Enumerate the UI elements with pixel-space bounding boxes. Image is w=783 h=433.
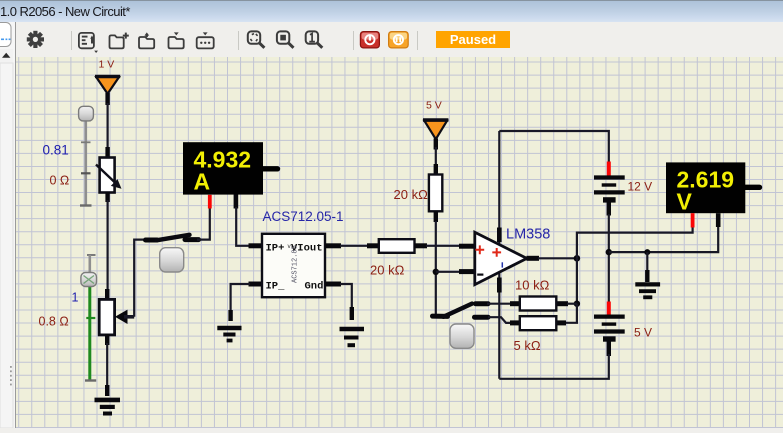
icon open-folder (up arrow) <box>139 32 154 48</box>
wire B1 minus down <box>608 214 610 303</box>
switch SW2 lever <box>157 235 190 241</box>
icon zoom-area <box>277 31 294 47</box>
svg-text:IP_: IP_ <box>266 281 286 293</box>
icon export (box with dots) <box>197 32 214 48</box>
button BTN2 <box>450 324 474 348</box>
switch SW1 throw pin upper <box>476 301 489 306</box>
wire ammeter to IP+ <box>236 207 250 246</box>
ammeter black pin <box>234 195 239 209</box>
wire node D to R2 right <box>564 304 577 323</box>
wire node F to ground <box>646 252 648 274</box>
op-amp U2 power pin bottom <box>498 272 500 379</box>
icon zoom-extents <box>248 31 265 47</box>
IC U1 pin IP_ <box>249 282 264 287</box>
wire IP_ to ground <box>231 284 250 318</box>
svg-text:5 V: 5 V <box>426 100 442 112</box>
svg-text:0.81: 0.81 <box>43 143 69 158</box>
slider1 knob <box>79 106 94 121</box>
ground GND2 <box>217 328 241 341</box>
slider2 knob <box>81 273 97 287</box>
slider1 track <box>80 112 92 206</box>
node E junction dot <box>606 249 612 255</box>
ground GND4 <box>635 284 660 297</box>
wire V2 to RV2 <box>106 103 108 150</box>
battery B2 5V <box>594 317 625 356</box>
battery B1 red stub <box>607 162 611 178</box>
ground GND3 <box>340 329 365 345</box>
resistor R2 5k pins <box>510 320 521 325</box>
switch SW1 lever <box>444 304 473 317</box>
svg-text:1 V: 1 V <box>99 59 115 71</box>
voltage source V2 (1V) <box>95 76 120 105</box>
toolbar <box>0 22 783 57</box>
resistor R1 10k pins <box>510 301 521 306</box>
ammeter red pin <box>208 195 212 209</box>
resistor R1 10k <box>520 297 557 311</box>
wire VIout to R3 <box>340 245 370 247</box>
svg-text:5 V: 5 V <box>634 326 652 340</box>
overflow box with dots <box>0 23 11 47</box>
node C junction dot <box>574 255 581 262</box>
node D junction dot <box>574 301 580 307</box>
slider2 track <box>85 255 96 381</box>
wire SW2 to ammeter <box>197 206 210 240</box>
paused badge <box>436 31 510 48</box>
resistor R3 20k <box>379 239 415 253</box>
op-amp U2 power pin top <box>498 131 500 245</box>
svg-text:10 kΩ: 10 kΩ <box>515 278 550 293</box>
ground GND1 <box>95 400 121 414</box>
IC U1 pin Gnd <box>325 282 341 287</box>
battery B2 red stub <box>607 302 611 317</box>
wire V3 to R4 <box>435 147 437 168</box>
rheostat RV2 pin top <box>105 147 109 158</box>
rheostat RV2 pin bottom <box>105 192 109 202</box>
voltmeter black pin <box>716 213 721 227</box>
wire R1 right to node D <box>567 303 577 305</box>
switch SW1 pole pin <box>433 314 448 319</box>
svg-text:20 kΩ: 20 kΩ <box>370 263 405 278</box>
wire opamp V+ feedback to battery B1 <box>499 131 609 164</box>
voltage source V3 (5V) <box>423 120 448 150</box>
wire output to node C <box>538 257 577 259</box>
wire lower throw to R2 <box>488 317 513 323</box>
voltmeter display 2.619 V <box>666 162 760 214</box>
button BTN1 <box>160 248 184 272</box>
svg-text:A: A <box>194 169 211 195</box>
svg-text:1: 1 <box>72 291 79 305</box>
svg-text:12 V: 12 V <box>628 180 653 194</box>
scrollbar thumb grip dots <box>10 366 12 385</box>
IC U1 pin VIout <box>325 243 341 248</box>
wire RV1 to ground <box>106 343 108 390</box>
stop button <box>360 32 379 48</box>
resistor R4 pin bottom <box>434 211 438 222</box>
IC U1 pin IP+ <box>249 243 264 248</box>
icon save-folder (down triangle) <box>169 32 184 48</box>
svg-text:Gnd: Gnd <box>305 281 324 293</box>
wire node B to opamp minus <box>436 271 462 273</box>
gear icon <box>23 27 47 51</box>
ammeter display 4.932 A <box>183 142 278 194</box>
scrollbar up arrow <box>0 49 13 63</box>
wire SW1 to R1 <box>487 303 512 305</box>
rheostat RV2 <box>96 158 122 193</box>
potentiometer RV1 pin bottom <box>105 334 109 345</box>
op-amp U2 output pin <box>527 256 540 261</box>
switch SW1 throw pin lower (open) <box>475 315 489 320</box>
svg-text:IP+: IP+ <box>266 243 285 255</box>
svg-text:V: V <box>677 189 693 215</box>
svg-text:5 kΩ: 5 kΩ <box>514 338 541 353</box>
potentiometer RV1 pin top <box>105 289 109 301</box>
wire RV2 to RV1 <box>106 200 108 291</box>
wire node C down <box>576 258 578 303</box>
svg-text:0 Ω: 0 Ω <box>50 174 70 188</box>
op-amp U2 body <box>475 232 527 284</box>
svg-text:LM358: LM358 <box>506 227 550 243</box>
icon zoom-100 <box>306 31 323 47</box>
icon new-folder (+) <box>110 33 129 49</box>
wire node C up to voltmeter + <box>577 226 693 258</box>
resistor R2 5k <box>520 316 557 330</box>
IC U1 ACS712 body <box>262 234 325 297</box>
pause button <box>389 32 409 48</box>
switch SW2 pole pin <box>146 238 158 243</box>
wire R3 to opamp + <box>415 243 428 248</box>
wire node E to voltmeter - <box>609 226 718 252</box>
potentiometer RV1 <box>99 299 134 335</box>
switch SW2 throw pin <box>185 237 199 242</box>
battery B1 12V <box>594 178 625 216</box>
wire B2 minus to opamp V- <box>499 354 609 379</box>
left scrollbar panel <box>0 22 16 428</box>
scrollbar track <box>0 63 13 428</box>
wire Gnd to ground <box>340 284 352 318</box>
wire wiper up <box>134 240 147 317</box>
svg-text:ACS712.85: ACS712.85 <box>292 245 300 283</box>
wire node B vertical <box>435 221 437 316</box>
resistor R4 20k vertical <box>429 175 442 212</box>
icon new-design (doc with lines and arrow) <box>79 33 98 53</box>
svg-text:ACS712.05-1: ACS712.05-1 <box>263 209 344 224</box>
svg-text:0.8 Ω: 0.8 Ω <box>39 315 69 329</box>
title bar <box>0 0 783 22</box>
svg-text:20 kΩ: 20 kΩ <box>394 187 429 202</box>
node F junction dot <box>644 249 650 255</box>
node B junction dot <box>433 269 439 275</box>
voltmeter red pin <box>691 213 695 227</box>
